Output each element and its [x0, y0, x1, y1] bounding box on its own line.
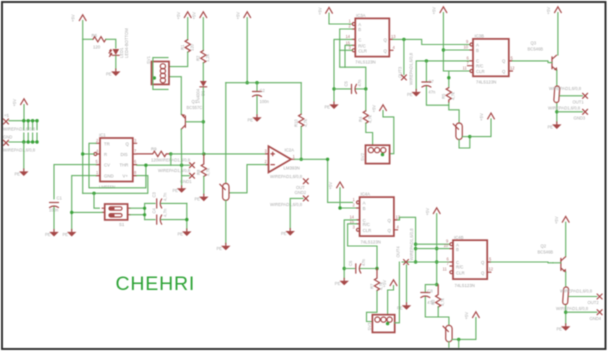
ground PE	[106, 69, 121, 77]
pin 7 R/C	[447, 261, 454, 266]
wire to R2	[202, 18, 204, 51]
resistor R1	[180, 40, 195, 52]
svg-text:OUT1: OUT1	[573, 100, 585, 105]
pin 2 minus	[265, 159, 269, 165]
wire pin B	[416, 248, 450, 250]
wire right branch to R10	[300, 83, 302, 115]
wire GND pin to ground	[72, 176, 96, 230]
svg-text:PE: PE	[548, 125, 554, 130]
junction bus	[143, 207, 146, 210]
svg-text:120: 120	[93, 45, 101, 50]
wirepad X OUT4	[396, 228, 415, 265]
wire RC pin to C6 right	[348, 224, 377, 269]
svg-text:WIREPAD1,6/0,8: WIREPAD1,6/0,8	[158, 168, 191, 173]
connector SV3	[367, 315, 395, 333]
wire C4 right	[161, 219, 187, 221]
power +5V P5	[317, 7, 332, 15]
wire minus input from trimmer	[229, 165, 265, 193]
wire trimmer bottom	[448, 342, 450, 347]
wire +5V rail down	[436, 214, 438, 285]
wire op-amp out to pin A	[328, 159, 353, 202]
svg-text:+5V: +5V	[382, 280, 387, 288]
svg-text:IC1: IC1	[99, 133, 106, 138]
capacitor C2	[253, 88, 270, 104]
svg-text:GND: GND	[3, 135, 12, 140]
svg-text:+5: +5	[4, 113, 9, 118]
svg-text:GND: GND	[104, 174, 114, 179]
pin 3 CLR inverted	[349, 45, 356, 52]
svg-text:C5: C5	[344, 80, 349, 86]
wirepad X OUT2	[588, 294, 603, 305]
wire top rail	[226, 82, 301, 84]
power +5V P9	[328, 182, 343, 190]
svg-text:WIREPAD1,6/0,8: WIREPAD1,6/0,8	[270, 174, 303, 179]
resistor R2	[196, 51, 210, 63]
svg-text:PE: PE	[15, 172, 21, 177]
svg-text:4,7k: 4,7k	[450, 91, 455, 100]
svg-text:4,7n: 4,7n	[163, 208, 168, 217]
wire +5V down	[246, 18, 248, 83]
svg-text:4,7k: 4,7k	[206, 167, 211, 176]
svg-text:B: B	[456, 247, 459, 252]
svg-text:LM555N: LM555N	[99, 185, 115, 190]
wire Q out	[393, 39, 470, 44]
svg-text:LED4-BOTTOM: LED4-BOTTOM	[124, 28, 129, 58]
svg-text:+5V: +5V	[328, 182, 333, 190]
junction SV2 pin	[381, 153, 384, 156]
wire THR net	[137, 164, 190, 166]
wire R to trimmer	[438, 307, 449, 325]
svg-text:PE: PE	[335, 281, 341, 286]
wire TR to loop	[89, 143, 146, 188]
wire +5V around to SV2 right	[383, 111, 394, 154]
junction C5 left	[332, 87, 335, 90]
resistor R4	[358, 111, 372, 123]
wire left branch down to trimmer	[225, 83, 227, 183]
svg-text:IC2A: IC2A	[285, 148, 295, 153]
power +5V P1	[71, 14, 87, 22]
wire D1 to Q1 base node	[202, 88, 204, 154]
ground PE	[548, 122, 562, 130]
svg-text:R1: R1	[180, 44, 185, 50]
node GND wirepad row	[3, 135, 12, 140]
svg-text:GND4: GND4	[590, 316, 602, 321]
svg-text:R6: R6	[92, 33, 98, 38]
svg-text:+5V: +5V	[191, 12, 196, 20]
svg-text:OUT4: OUT4	[396, 246, 401, 258]
svg-text:PE: PE	[407, 92, 413, 97]
wire pad bottom	[565, 306, 567, 324]
svg-text:4,7k: 4,7k	[367, 114, 372, 123]
svg-text:BC557C: BC557C	[187, 105, 203, 110]
resistor R6	[92, 33, 106, 50]
pin 8 V+	[133, 170, 137, 176]
wire OUT4 to ground	[406, 265, 408, 303]
svg-text:+5V: +5V	[235, 12, 240, 20]
wire R6 to LED1	[106, 39, 116, 48]
pin 7 DIS	[133, 149, 137, 155]
transistor Q2 BC546B	[538, 244, 567, 273]
power +5V P3	[191, 12, 206, 20]
transistor Q3 BC546B	[528, 41, 558, 71]
wire R8 to ground	[203, 177, 205, 195]
svg-text:PE: PE	[173, 188, 179, 193]
wire +5V to Q2 collector	[565, 222, 567, 256]
wire pad to X OUT1	[560, 95, 583, 97]
svg-text:10: 10	[464, 45, 469, 50]
svg-text:WIREPAD1,6/0,8: WIREPAD1,6/0,8	[409, 228, 414, 261]
junction crossing C	[435, 260, 438, 263]
junction R9 out	[169, 152, 172, 155]
wire Q1 collector down	[180, 129, 182, 165]
junction riser B	[414, 247, 417, 250]
wire pin C / OUT4 net	[402, 261, 450, 263]
pin 14 C	[346, 34, 356, 40]
wire Q to Q2 base	[491, 261, 553, 264]
junction Q1 base	[202, 120, 205, 123]
wire C2 to ground	[256, 96, 258, 115]
svg-text:THR: THR	[120, 163, 129, 168]
ground PE	[557, 324, 571, 332]
junction wiper	[457, 338, 460, 341]
svg-text:PE: PE	[325, 105, 331, 110]
resistor R5	[441, 88, 455, 102]
junction C4 bus	[185, 218, 188, 221]
svg-text:C8: C8	[427, 289, 433, 294]
ground PE	[63, 230, 77, 238]
svg-text:R9: R9	[151, 147, 157, 152]
wire R5 riser	[448, 71, 450, 88]
pin 14 C	[350, 214, 360, 220]
wirepad X OUT	[295, 179, 309, 195]
pin 1 GND	[96, 170, 100, 176]
svg-text:WIREPAD1,6/0,8: WIREPAD1,6/0,8	[270, 202, 303, 207]
power +5V P2	[176, 12, 191, 20]
wire C7 bottom loop to R5	[426, 87, 448, 106]
pin 2 TR	[96, 138, 100, 144]
svg-text:PE: PE	[281, 231, 287, 236]
svg-text:WIREPAD1,6/0,8: WIREPAD1,6/0,8	[560, 289, 593, 294]
junction R rail	[81, 152, 84, 155]
switch S1	[102, 204, 130, 227]
svg-text:+5V: +5V	[554, 216, 559, 224]
svg-text:PE: PE	[63, 232, 69, 237]
junction top rail	[246, 81, 249, 84]
pin 3 Q	[133, 138, 137, 144]
wire C3 right	[161, 202, 187, 204]
svg-text:10: 10	[444, 243, 449, 248]
pin 1 out	[291, 154, 296, 160]
pin 13 Q	[389, 34, 396, 40]
connector SV2	[360, 145, 390, 163]
wire GND pad row	[9, 141, 37, 143]
svg-text:74LS123N: 74LS123N	[361, 240, 381, 245]
wire cap left bus	[145, 203, 155, 219]
svg-text:B: B	[476, 48, 479, 53]
wire trimmer wiper to +5V	[452, 318, 476, 340]
svg-text:+5V: +5V	[317, 7, 322, 15]
svg-text:R2: R2	[196, 55, 201, 61]
svg-text:+5V: +5V	[12, 99, 17, 107]
pin 6 C	[447, 257, 454, 263]
capacitor C4	[152, 207, 168, 224]
pin 10 B	[444, 243, 454, 249]
wirepad X GND2	[270, 196, 308, 207]
svg-text:+5V: +5V	[425, 208, 430, 216]
wire stubs down	[24, 121, 37, 130]
svg-text:CHEHRI: CHEHRI	[116, 273, 196, 295]
wire RC jog	[345, 45, 352, 67]
wirepad pad OUT1	[549, 86, 582, 103]
svg-text:47n: 47n	[428, 90, 436, 95]
junction output	[300, 158, 303, 161]
wire LED1 to ground	[115, 56, 117, 69]
resistor R6b	[431, 285, 445, 308]
wire to X GND3	[557, 111, 583, 113]
wire R10 to output node	[300, 127, 302, 160]
svg-text:+5V: +5V	[176, 12, 181, 20]
junction rail end	[435, 283, 438, 286]
wirepad X GND3	[548, 106, 588, 121]
junction pin B	[338, 206, 341, 209]
wire P0 down	[23, 105, 25, 121]
wire R5 bottom to trimmer T3	[449, 102, 459, 123]
junction dots row1	[22, 119, 39, 122]
op IC3A box	[355, 13, 389, 65]
wire C5 to R4	[365, 89, 367, 111]
svg-text:R4: R4	[358, 116, 363, 122]
wire pad to X OUT2	[569, 296, 597, 298]
svg-text:PE: PE	[178, 232, 184, 237]
svg-text:DIS: DIS	[121, 152, 128, 157]
svg-text:R7: R7	[369, 283, 374, 289]
pin 12 Qbar	[509, 66, 515, 72]
junction out node	[326, 158, 329, 161]
resistor R10	[293, 114, 307, 127]
wirepad X GND4	[556, 306, 602, 321]
svg-text:SV2: SV2	[360, 152, 365, 161]
svg-text:PE: PE	[195, 197, 201, 202]
junction R5 top	[447, 76, 450, 79]
op IC3B box	[473, 34, 509, 85]
svg-text:Q1: Q1	[192, 99, 198, 104]
svg-text:OUT2: OUT2	[588, 300, 600, 305]
wire SV1 wrap	[153, 58, 168, 90]
power +5V P10	[425, 208, 440, 216]
svg-text:BC546B: BC546B	[538, 250, 554, 255]
op IC1 LM555N box	[99, 133, 133, 190]
svg-text:PE: PE	[45, 232, 51, 237]
svg-text:B: B	[358, 27, 361, 32]
junction GND3	[555, 110, 558, 113]
svg-text:CLR: CLR	[476, 69, 485, 74]
wirepad X +5	[3, 119, 36, 132]
wire cap right bus	[186, 203, 188, 229]
capacitor C8	[421, 289, 435, 306]
svg-text:WIREPAD1,6/0,8: WIREPAD1,6/0,8	[3, 148, 36, 153]
pin 6 THR	[133, 159, 137, 165]
label WIREPAD OUT GND2	[270, 174, 303, 179]
wirepad X net1	[158, 163, 195, 173]
wire R2 to D1	[202, 63, 204, 81]
svg-text:R/C: R/C	[476, 64, 483, 69]
svg-text:47n: 47n	[357, 79, 362, 87]
svg-text:+5V: +5V	[432, 7, 437, 15]
svg-text:Q3: Q3	[531, 41, 537, 46]
svg-text:CLR: CLR	[358, 48, 367, 53]
power +5V P13	[554, 216, 569, 224]
svg-text:BC546B: BC546B	[528, 47, 544, 52]
wire to pin B	[443, 49, 470, 51]
svg-text:47n: 47n	[361, 258, 366, 266]
svg-text:C6: C6	[348, 260, 353, 266]
junction C7	[425, 59, 428, 62]
ground PE	[178, 229, 192, 237]
svg-text:GND2: GND2	[295, 190, 307, 195]
wire Q13 to IC4B riser	[398, 217, 416, 262]
svg-text:+5V: +5V	[464, 312, 469, 320]
wire Q2 emitter down	[565, 272, 567, 286]
pin 11 CLR inverted	[443, 267, 453, 274]
wire trimmer bottom loop	[459, 137, 470, 148]
wirepad X OUT1	[573, 93, 588, 104]
trimmer R11	[220, 183, 229, 200]
wire wiper down	[458, 339, 460, 347]
power +5V P14	[479, 113, 494, 121]
wire B CLR shared vertical	[340, 29, 366, 89]
svg-text:12: 12	[489, 267, 494, 272]
svg-text:WIREPAD1,6/0,8: WIREPAD1,6/0,8	[549, 86, 582, 91]
wire wiper out	[462, 136, 470, 138]
pin 1 A inverted	[353, 197, 360, 204]
junction OUT3	[402, 38, 405, 41]
wire Cext net IC3B	[416, 61, 470, 90]
power +5V P8	[546, 7, 561, 15]
pin 15 R/C	[350, 219, 360, 224]
ground PE	[407, 90, 421, 98]
svg-text:R/C: R/C	[456, 264, 463, 269]
node +5 wirepad row	[4, 113, 9, 118]
svg-text:SV1: SV1	[146, 55, 151, 64]
pin 2 B	[349, 24, 356, 30]
svg-text:74LS123N: 74LS123N	[455, 283, 475, 288]
pin 9 A inverted	[446, 239, 453, 246]
wire S1 right pins to cap bus	[130, 207, 144, 209]
wire to OUT3 pad	[403, 39, 405, 74]
svg-text:11: 11	[463, 66, 468, 71]
power +5V P4	[235, 12, 250, 20]
svg-text:V+: V+	[123, 174, 129, 179]
power +5V P0	[12, 99, 27, 107]
svg-text:GND3: GND3	[574, 116, 586, 121]
pin 4 Qbar	[389, 45, 395, 51]
svg-text:R10: R10	[293, 119, 298, 127]
svg-text:4,7k: 4,7k	[440, 297, 445, 306]
pin 5 Q	[487, 257, 492, 263]
svg-text:100n: 100n	[260, 99, 270, 104]
trimmer R12	[443, 325, 452, 342]
wire R to +5V rail	[83, 153, 94, 155]
junction S1 branch	[92, 192, 95, 195]
trimmer R13	[453, 123, 462, 140]
capacitor C1	[49, 196, 63, 213]
svg-text:PE: PE	[106, 72, 112, 77]
svg-text:14: 14	[346, 34, 351, 39]
wirepad X OUT3	[398, 52, 414, 85]
svg-text:R/C: R/C	[363, 222, 370, 227]
junction SV1 pin	[153, 76, 156, 79]
wire CLR to vertical	[340, 49, 353, 51]
resistor R8	[196, 154, 211, 177]
wire C7 top	[425, 61, 427, 81]
svg-text:4,7k: 4,7k	[303, 118, 308, 127]
ground PE	[45, 230, 59, 238]
capacitor C5	[334, 79, 366, 94]
pin 12 Qbar	[487, 267, 494, 273]
wire +5V to pin B	[340, 188, 357, 208]
wire trimmer bottom to ground	[225, 200, 227, 243]
wire +5V rail down left	[82, 21, 84, 194]
wire pad bottom	[556, 104, 558, 123]
svg-text:OUT3: OUT3	[398, 66, 403, 78]
capacitor C6	[344, 258, 377, 273]
svg-text:IC3B: IC3B	[475, 34, 485, 39]
svg-text:C1: C1	[57, 196, 63, 201]
pin 3 CLR inverted	[353, 224, 360, 231]
junction T3	[468, 135, 471, 138]
svg-text:WIREPAD1,6/0,8: WIREPAD1,6/0,8	[408, 52, 413, 85]
junction R8 top	[202, 152, 205, 155]
wire stubs up	[24, 133, 37, 142]
wire S1 lower-left to gnd rail	[72, 211, 102, 213]
wire SV3 right to OUT4 net	[395, 262, 400, 323]
pin 15 R/C	[346, 40, 356, 45]
wire C8 bottom	[425, 297, 438, 317]
svg-text:+5V: +5V	[479, 113, 484, 121]
svg-text:74LS123N: 74LS123N	[355, 60, 375, 65]
svg-text:IC4B: IC4B	[454, 235, 464, 240]
wirepad X GND1	[180, 173, 195, 184]
diode D1 1N4004	[196, 81, 207, 104]
svg-text:+5V: +5V	[546, 7, 551, 15]
wire to R1	[187, 18, 189, 40]
svg-text:C3: C3	[152, 191, 157, 197]
wire op-amp out	[295, 158, 328, 160]
junction B pin	[442, 48, 445, 51]
pin 3 plus	[265, 148, 269, 154]
wire to GND1 pad	[182, 165, 190, 176]
wire Q to Q3 base	[513, 61, 551, 63]
capacitor C3	[152, 191, 168, 208]
svg-text:Q2: Q2	[541, 244, 547, 249]
svg-text:A: A	[363, 201, 366, 206]
connector SV1	[146, 55, 169, 84]
svg-text:A: A	[476, 42, 479, 47]
junction C5 right	[364, 87, 367, 90]
wirepad pad OUT2	[560, 287, 593, 305]
pin 1 A inverted	[349, 19, 356, 26]
wire C2 top	[256, 83, 258, 91]
svg-text:C2: C2	[260, 88, 266, 93]
wire Q1 emitter up to SV1	[169, 77, 181, 115]
pin 9 A inverted	[466, 39, 473, 46]
wire to S1 top pin	[94, 193, 99, 208]
pin 2 B	[353, 203, 360, 209]
resistor R7	[369, 269, 383, 292]
svg-text:R3: R3	[431, 299, 436, 305]
ground PE	[195, 194, 209, 201]
wire pin A	[416, 243, 450, 245]
